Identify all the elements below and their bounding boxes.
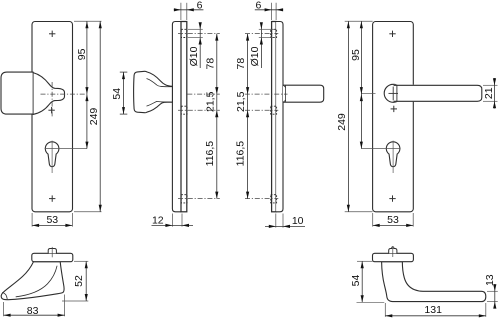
svg-text:53: 53 <box>387 214 399 226</box>
svg-text:53: 53 <box>46 214 58 226</box>
svg-text:116,5: 116,5 <box>204 141 216 167</box>
svg-text:131: 131 <box>424 304 442 316</box>
svg-text:12: 12 <box>152 214 164 226</box>
svg-text:Ø10: Ø10 <box>249 46 261 66</box>
svg-text:95: 95 <box>350 49 362 61</box>
svg-text:54: 54 <box>111 88 123 100</box>
svg-text:249: 249 <box>336 113 348 131</box>
svg-text:78: 78 <box>204 58 216 70</box>
svg-text:83: 83 <box>27 305 39 317</box>
svg-text:52: 52 <box>73 275 85 287</box>
svg-text:13: 13 <box>484 274 496 286</box>
svg-text:78: 78 <box>235 58 247 70</box>
svg-text:6: 6 <box>255 0 261 11</box>
svg-text:95: 95 <box>76 48 88 60</box>
svg-text:6: 6 <box>197 0 203 11</box>
svg-text:54: 54 <box>350 275 362 287</box>
svg-text:Ø10: Ø10 <box>188 46 200 66</box>
svg-text:10: 10 <box>292 215 304 227</box>
svg-text:21: 21 <box>483 87 495 99</box>
svg-text:21,5: 21,5 <box>235 91 247 112</box>
svg-text:21,5: 21,5 <box>204 91 216 112</box>
svg-text:249: 249 <box>88 108 100 126</box>
svg-text:116,5: 116,5 <box>234 141 246 167</box>
